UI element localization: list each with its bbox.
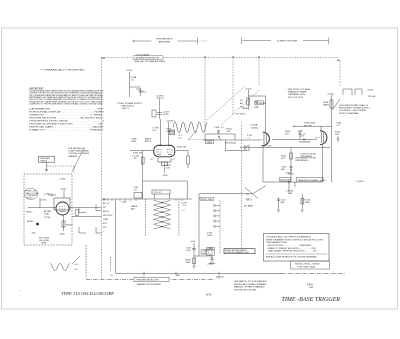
svg-text:CONNECTED TO THE TRIGGER INPUT: CONNECTED TO THE TRIGGER INPUT CONNECTOR… [29,103,103,106]
wire V145A plate [265,96,267,134]
svg-text:+GAS: +GAS [285,172,291,175]
wire trigger input shielded section dashed box [24,174,72,245]
svg-text:CALIBRATOR . . . . . . . . . .: CALIBRATOR . . . . . . . . . . . . . . .… [29,108,104,111]
node voltage settings note box [264,234,330,262]
wire grid left of V135 [130,150,153,152]
svg-text:1 TD 47: 1 TD 47 [154,192,163,194]
svg-text:1M: 1M [183,147,186,149]
svg-text:F.P.A: F.P.A [307,283,313,287]
svg-text:STABILITY . . . . . . . . . .: STABILITY . . . . . . . . . . . . . . . … [29,129,104,132]
svg-text:CALIBRATOR/MONITOR: CALIBRATOR/MONITOR [135,57,160,60]
transistor V145B tube [320,131,327,145]
transistor V14 tube [56,202,69,215]
svg-text:VOLTAGES AND +NO TIME POS R: VOLTAGES AND +NO TIME POS READINGS [266,236,311,239]
svg-text:REGULATED POWER SUPPLY: REGULATED POWER SUPPLY [339,107,371,110]
label TP150 [288,181,290,183]
wire grid line to V145A [203,139,260,141]
svg-text:1MEG: 1MEG [323,105,329,107]
svg-text:GRID: GRID [41,243,47,245]
resistor R160 boxed [280,178,291,182]
svg-text:TRIG 150B: TRIG 150B [304,123,315,125]
svg-text:DCPL: DCPL [170,133,175,135]
wire dashed drop from box bottom [85,245,87,278]
svg-text:TRANSISTOR BASE LEVEL: TRANSISTOR BASE LEVEL [298,179,327,182]
svg-text:500K: 500K [231,143,237,145]
svg-text:SEE PARTS LIST FOR EARLIER: SEE PARTS LIST FOR EARLIER [234,280,267,283]
resistor R167 [193,258,196,264]
svg-text:STABILITY PRESET ADJUSTED . .: STABILITY PRESET ADJUSTED . . . . . . . … [268,247,317,250]
svg-text:PAS: PAS [288,192,293,195]
wire lower loop [226,140,250,151]
svg-text:15K: 15K [335,134,339,136]
svg-text:PIN 4 OF V145: PIN 4 OF V145 [288,97,304,99]
node high/low compens oval [24,188,38,199]
svg-text:WERE OBTAINED WITH CONTROLS SE: WERE OBTAINED WITH CONTROLS SET AS FOLLO… [266,239,324,242]
svg-text:SUPPLY DIAGRAM: SUPPLY DIAGRAM [339,112,358,115]
svg-text:+100V: +100V [126,70,133,72]
wire down to V135 plate [168,122,170,145]
diode neon dot [36,223,39,226]
svg-text:(DEC.): (DEC.) [157,98,164,100]
capacitor C161 [277,198,280,212]
svg-text:+GAS: +GAS [207,263,213,266]
svg-text:(DEC.): (DEC.) [122,108,129,110]
svg-text:100K: 100K [44,214,50,216]
wire output arrow left [303,139,306,141]
svg-text:C160: C160 [121,202,127,204]
resistor R1064 [62,221,65,227]
node input waveform sketch [50,264,70,271]
node SW160 note box [224,249,255,254]
resistor R146 [330,100,333,108]
svg-text:+100: +100 [190,241,196,243]
wire diagonal drop left [245,188,258,199]
svg-text:AC: AC [240,102,243,105]
wire lower bus [263,181,323,183]
node tick marks on calibrator bus [204,56,260,58]
section label TRIGGER INPUT AMPLIFIER [133,38,207,45]
wire diagonal [333,99,341,110]
svg-text:+ -: + - [103,231,106,233]
svg-text:R145B 3K: R145B 3K [256,103,267,105]
svg-text:PROV 1064: PROV 1064 [201,199,213,201]
svg-text:(.01): (.01) [186,250,191,252]
svg-text:AC: AC [103,198,106,201]
svg-text:** CERAMICALLY MOUNTED: ** CERAMICALLY MOUNTED [40,68,85,71]
svg-text:CENTERING ←: CENTERING ← [295,160,311,162]
section label SCHMITT TRIGGER [242,37,329,44]
svg-text:+TP: +TP [336,125,341,127]
svg-text:VOLTAGES - SEE POWER: VOLTAGES - SEE POWER [339,109,366,112]
svg-text:A7A: A7A [205,293,212,297]
svg-text:V1734: V1734 [44,217,51,219]
wire leader to note [72,148,84,172]
svg-text:100K: 100K [305,202,311,204]
svg-text:SW160 + R160 + SW160: SW160 + R160 + SW160 [295,263,320,265]
svg-text:1064: 1064 [207,235,213,237]
svg-text:-150: -150 [31,233,36,235]
svg-text:SW 160: SW 160 [216,277,225,279]
svg-text:+(DCPL): +(DCPL) [166,121,175,123]
wire input line to tube [28,207,56,209]
note trigger-input values [68,147,90,158]
svg-text:TRIGGERING LEVEL: TRIGGERING LEVEL [266,242,288,244]
node transistor base level boxed [297,177,323,182]
svg-text:V135: V135 [157,145,163,147]
svg-text:TIME/DIV . . . . . . . . . .: TIME/DIV . . . . . . . . . . . . . . . .… [29,115,104,117]
tube V135 base [158,158,171,166]
svg-text:TO ALL POWER SUPPLY: TO ALL POWER SUPPLY [117,102,143,105]
wire outputs to the right [69,207,102,209]
wire bus into switch [102,198,193,200]
svg-text:TRIGGER SLOPE AND FUNCTION . .: TRIGGER SLOPE AND FUNCTION . . . . . . .… [29,123,104,126]
svg-text:*GANGED WITH SWEEP: *GANGED WITH SWEEP [136,283,162,286]
svg-text:NO BIAS: NO BIAS [244,205,253,208]
svg-text:TIME/CM AND TRIGGER SELECTED .: TIME/CM AND TRIGGER SELECTED . . . . . .… [268,250,317,253]
wire feedback loop top [143,181,188,199]
svg-text:22K: 22K [166,168,170,170]
svg-text:TRIGGER SELECTOR: TRIGGER SELECTOR [136,280,159,282]
wire dashed stub to bus [110,257,112,272]
wire dashed corner above input box [47,166,74,174]
svg-text:R132 1M: R132 1M [133,153,142,155]
svg-text:C150: C150 [298,131,304,133]
svg-text:C1744: C1744 [40,200,47,202]
svg-text:+225V: +225V [59,179,66,181]
svg-text:27K: 27K [285,134,289,136]
capacitor C155 [290,167,293,168]
svg-text:R1627: R1627 [26,212,33,214]
svg-text:FOR SIMPLIFICATION ALL A: FOR SIMPLIFICATION ALL A [339,104,368,107]
node trigger level pot [218,136,221,140]
svg-text:SCHMITT TRIGGER: SCHMITT TRIGGER [277,41,298,43]
resistor R144 [247,98,250,105]
svg-text:VERTICAL GAIN . . . . . . . .: VERTICAL GAIN . . . . . . . . . . . . . … [29,126,104,129]
svg-text:POSITION +GANGED 1064: POSITION +GANGED 1064 [225,251,249,254]
svg-text:DCPL: DCPL [163,114,170,116]
node switch position labels [103,198,113,233]
svg-text:EXT: EXT [103,223,108,225]
wire cathode resistor chain [290,148,292,183]
svg-text:75 VOLTAGE: 75 VOLTAGE [136,54,150,57]
wire V145B plate top [294,125,332,127]
wire section divider dashed verticals [102,58,341,280]
capacitor C40 / resistor R40 decoupling pair [152,109,162,119]
svg-text:PULSE: PULSE [368,96,376,98]
svg-text:HF SYNC: HF SYNC [103,215,113,217]
capacitor C14 [48,194,56,197]
svg-text:+DC: +DC [152,130,157,132]
resistor R161 [301,194,304,212]
wire bottom bus [116,272,281,276]
svg-text:HORIZONTAL DISPLAY . . . . . .: HORIZONTAL DISPLAY . . . . . . . . . . .… [29,111,104,114]
wire lower junction [194,255,207,257]
svg-text:AC LF: AC LF [103,202,110,205]
svg-text:TD: TD [134,190,137,192]
svg-text:TYPE ONLY 310A: TYPE ONLY 310A [297,265,315,268]
svg-text:SEE ALSO IMPORTANT NOTE ON THE: SEE ALSO IMPORTANT NOTE ON THE DIAGRAM [266,256,316,259]
svg-text:ADJ B →: ADJ B → [145,140,154,143]
svg-text:DC: DC [240,100,244,102]
node bus contact ticks [104,199,182,201]
svg-text:+GAS: +GAS [206,141,212,144]
svg-text:SET IN NOTCH . . . . . . . .: SET IN NOTCH . . . . . . . . . . . . . C… [268,245,312,247]
svg-text:1 (DEC): 1 (DEC) [356,181,364,183]
svg-text:TIME -BASE TRIGGER: TIME -BASE TRIGGER [282,296,341,303]
capacitor C150 [299,130,302,140]
svg-text:TYPICAL VOLTAGES: TYPICAL VOLTAGES [68,152,90,155]
capacitor C140 bypass [205,131,235,140]
svg-text:A50B: A50B [243,107,249,110]
svg-text:(.01): (.01) [208,256,213,258]
node bracket marks [343,89,362,95]
wire contact jogs [79,205,102,234]
svg-text:+OF 5VDC: +OF 5VDC [235,114,246,116]
note parts list [234,280,267,291]
svg-text:R149 2.2K: R149 2.2K [261,146,272,148]
wire switch wafer dashed boundaries [144,199,146,236]
wire plate supply vertical [159,100,161,110]
wire input arrow [45,162,47,171]
transistor V145A tube [263,132,270,145]
wire mid bus to schmitt [199,193,253,195]
note voltage footnote [286,88,311,99]
svg-text:AUTO: AUTO [103,210,109,213]
wire switch crossing network [154,200,171,229]
svg-text:R160 47K: R160 47K [280,179,290,181]
tube V135 6U8 (dual triode) [154,145,175,157]
capacitor C167 [192,243,195,266]
resistor R16 interstage [76,210,79,216]
svg-text:AMPLIFIER: AMPLIFIER [159,40,171,43]
svg-text:-150V: -150V [162,175,168,177]
svg-text:R1064: R1064 [66,225,73,227]
transistor V14 shield box [54,198,70,210]
svg-text:27K: 27K [281,158,285,160]
svg-text:(VARIES): (VARIES) [68,155,78,158]
resistor R145 boxed [255,101,264,105]
wire trigger mode contact column [219,200,221,254]
capacitor C24 decoupling at top of power feed [129,72,142,97]
wire cathode down [63,215,65,231]
node trigger waveform sketch [173,122,207,133]
svg-text:+100V: +100V [367,90,374,92]
svg-text:100K: 100K [131,141,137,143]
svg-text:A5563: A5563 [27,220,34,223]
svg-text:25K: 25K [227,131,231,133]
wire plate bus [240,147,330,149]
ground [193,266,196,268]
node waveform arrows [254,101,258,108]
svg-text:DC: DC [103,207,107,209]
resistor R155 [290,153,293,159]
svg-text:(.02): (.02) [202,253,207,255]
svg-text:-150V: -150V [59,234,65,236]
svg-text:(SEE CAL TYP BIAS A/D DWG): (SEE CAL TYP BIAS A/D DWG) [134,60,165,63]
wire cathode left down [142,151,144,182]
resistor R137 [164,163,166,173]
svg-text:R1734: R1734 [26,198,33,200]
node 75V CALIBRATOR dashed bus [102,57,340,59]
resistor R160B boxed [207,247,215,255]
svg-text:+225V: +225V [60,189,67,191]
svg-text:C1743: C1743 [44,194,51,196]
svg-text:WITH BLUE OUTLINE.: WITH BLUE OUTLINE. [234,289,257,291]
capacitor C167 bottom [211,255,214,262]
svg-text:180K: 180K [186,262,192,264]
node TRIGGER INPUT connector box [39,156,55,162]
ground [337,136,340,141]
node switch junction dots [161,202,162,227]
svg-text:READINGS WERE: READINGS WERE [288,91,307,94]
svg-text:AC: AC [244,148,247,151]
svg-text:V 450A: V 450A [250,124,258,127]
svg-text:TYPE 310 OSCILLOSCOPE: TYPE 310 OSCILLOSCOPE [61,292,115,296]
svg-text:OBTAINED WITH: OBTAINED WITH [288,93,306,96]
wire V145A cathode down [262,146,264,183]
svg-text:TRIGGER INPUT: TRIGGER INPUT [156,39,174,41]
wire grid link to V145B [272,139,317,141]
svg-text:7-58: 7-58 [309,287,314,289]
note settings list [29,108,105,132]
wire right feed down [198,194,200,256]
svg-text:COMPONENTS AND: COMPONENTS AND [68,150,89,153]
svg-text:TRIGGER SELECTOR . . . . . . .: TRIGGER SELECTOR . . . . . . . . . . . .… [29,117,104,120]
wire plate right of V135 [176,150,188,152]
node wafer slope box [152,190,170,194]
svg-text:VALUES AND SERIAL NUMBER: VALUES AND SERIAL NUMBER [234,283,266,286]
svg-text:ADJ: ADJ [131,208,135,211]
wire plate feed left [160,119,162,146]
svg-text:TRIGGERING LEVEL KNOB . . . .: TRIGGERING LEVEL KNOB . . . . . . . . . … [29,121,105,123]
svg-text:C140: C140 [214,127,220,129]
resistor R132 body [141,157,144,164]
capacitor C133 [169,131,170,133]
svg-text:100K: 100K [306,142,312,144]
note semiconductor footnote [339,104,371,115]
svg-text:+ SEE NOTE: VOLTAGE: + SEE NOTE: VOLTAGE [286,88,311,91]
wire section divider dash-dot [86,279,214,281]
wire V145B cathode [322,145,324,182]
wire plate feed [248,95,265,97]
svg-text:LINE: LINE [103,219,108,221]
wire section divider right [281,273,345,275]
svg-text:RANGES OF PARTS MARKED: RANGES OF PARTS MARKED [234,286,265,289]
node TRIGGER SELECTOR label [134,277,169,281]
